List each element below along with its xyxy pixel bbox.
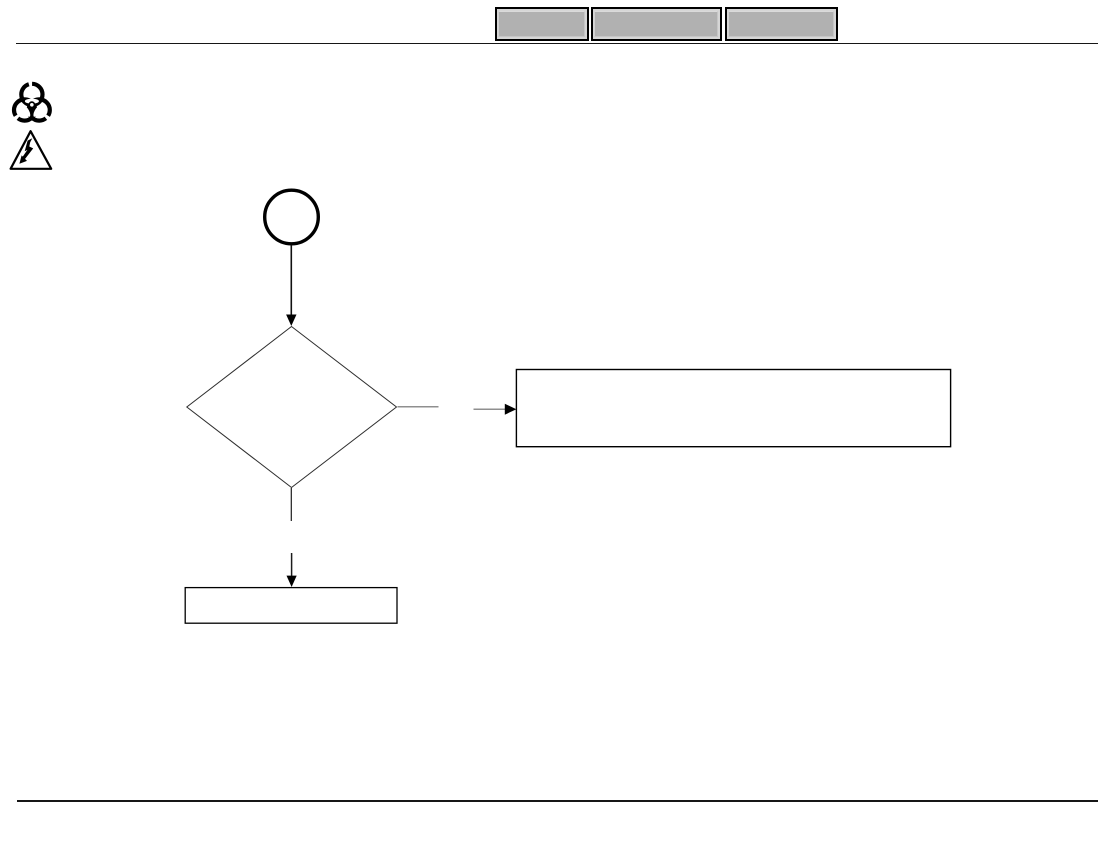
wire diamond right (398, 406, 439, 408)
wire diamond bottom (290, 488, 292, 521)
arrow to action box (474, 404, 517, 415)
high voltage icon (11, 131, 52, 169)
decision diamond (187, 327, 397, 488)
start circle (265, 190, 319, 244)
biohazard icon (14, 84, 50, 121)
action box right (516, 370, 950, 447)
header rule (16, 43, 1098, 44)
nav button 1 (495, 7, 589, 41)
arrow circle to diamond (286, 245, 296, 326)
nav button 3 (725, 7, 838, 41)
arrow to terminal box (287, 553, 297, 587)
nav button 2 (591, 7, 722, 41)
terminal box bottom (185, 588, 397, 624)
footer rule (17, 800, 1098, 801)
